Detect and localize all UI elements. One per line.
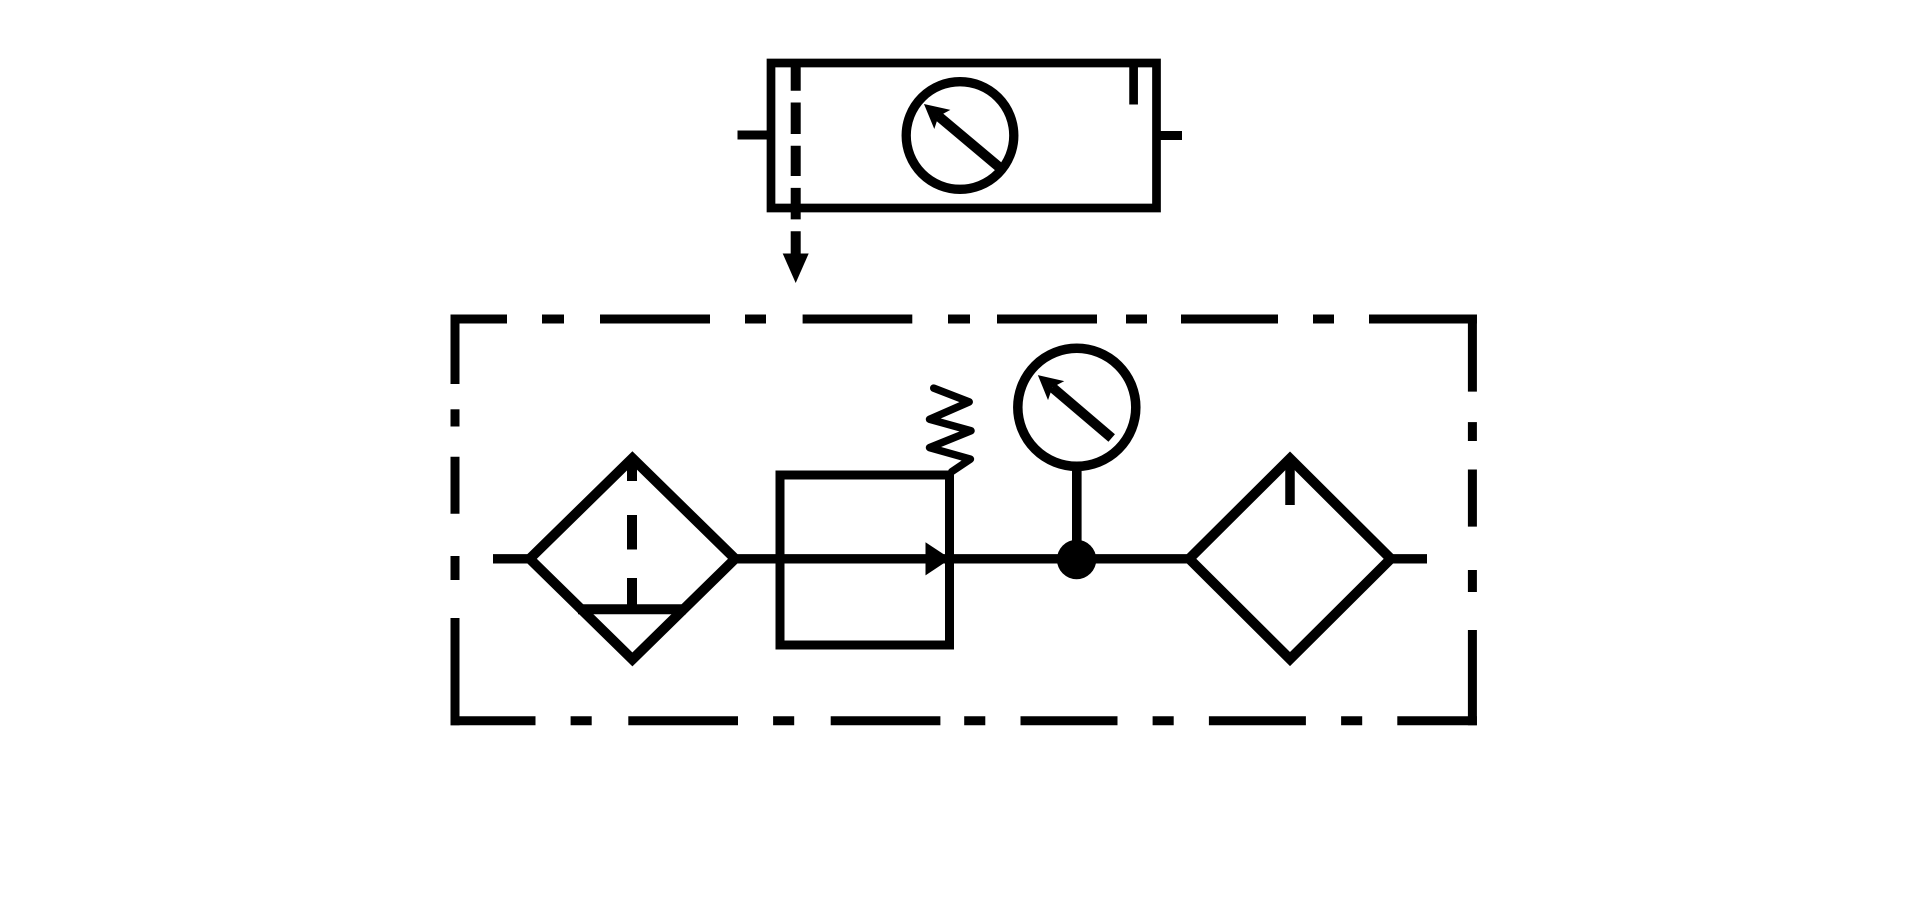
filter F1 with water separator body	[530, 458, 735, 659]
pressure regulator R1 flow arrowhead	[926, 542, 951, 575]
pressure regulator R1 body	[780, 475, 950, 645]
lubricator L1 drip stub	[1285, 464, 1295, 505]
wire: gauge G2 stem	[1072, 464, 1082, 559]
wire: right port lead of U1	[1157, 131, 1183, 140]
wire: main flow line filter to lubricator through regulator	[732, 554, 1192, 563]
enclosure boundary: bottom edge dash-dot	[451, 716, 1477, 725]
drain indicator dashed line of U1	[791, 63, 801, 255]
enclosure boundary: right edge dash-dot	[1468, 315, 1477, 726]
filter F1 element dashed line	[627, 461, 637, 606]
wire: left port lead of U1	[738, 131, 772, 140]
enclosure boundary: top edge dash-dot	[451, 315, 1477, 324]
lubricator tick mark of U1	[1129, 63, 1138, 105]
pressure gauge G2 needle arrow	[1030, 366, 1120, 448]
enclosure boundary: left edge dash-dot	[451, 315, 460, 726]
air service unit U1 simplified symbol box	[771, 63, 1157, 208]
gauge G1 circle inside U1	[906, 82, 1014, 190]
lubricator L1 body	[1189, 459, 1391, 660]
pressure gauge G2 circle	[1018, 348, 1136, 466]
wire: inlet lead to filter F1	[493, 554, 533, 563]
drain arrowhead of U1	[783, 254, 809, 284]
gauge G1 needle arrow	[916, 94, 1007, 176]
wire: outlet lead from lubricator L1	[1388, 554, 1427, 563]
pressure regulator R1 adjustment spring	[930, 388, 972, 472]
filter F1 separator sump line	[578, 604, 686, 614]
junction node dot	[1057, 540, 1096, 579]
